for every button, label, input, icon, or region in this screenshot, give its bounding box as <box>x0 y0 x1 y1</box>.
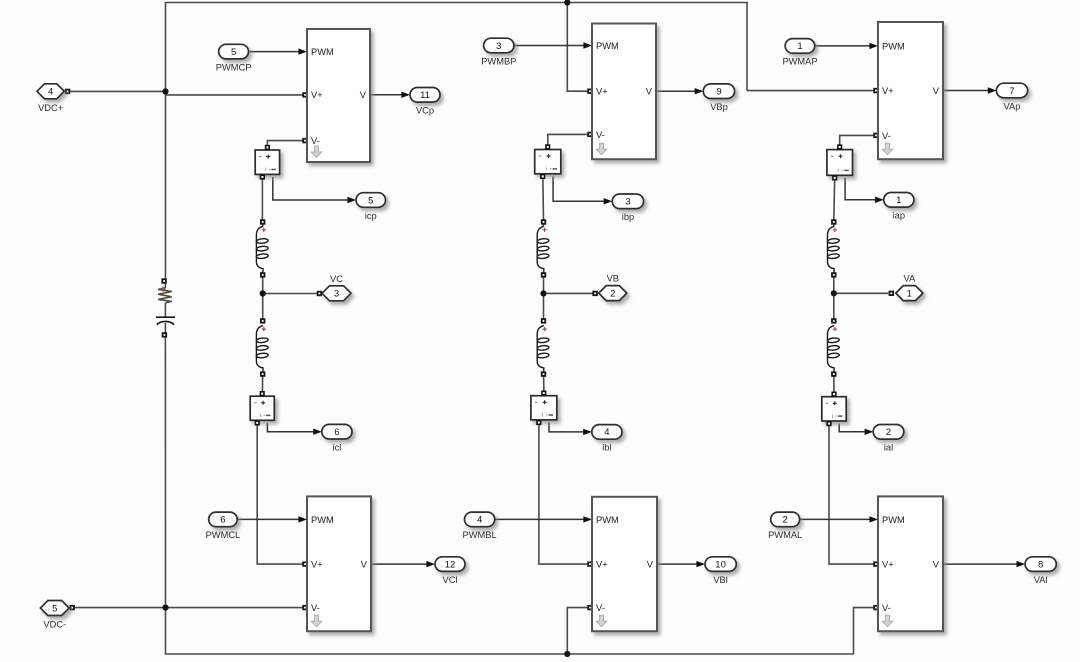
svg-text:V+: V+ <box>596 560 608 570</box>
svg-text:VBp: VBp <box>710 102 728 112</box>
Icp plus mark <box>266 155 270 159</box>
svg-text:3: 3 <box>496 41 501 52</box>
arrowhead into block A lower PWM <box>869 516 878 522</box>
connector block A lower V- pin <box>873 605 878 610</box>
arrowhead into port VAp <box>988 87 997 93</box>
svg-text:V: V <box>647 560 654 570</box>
junction bottom rail / phase B <box>564 651 570 657</box>
resistor red + polarity mark <box>161 287 166 292</box>
svg-text:i: i <box>542 413 543 419</box>
half-bridge block PWM_Bp <box>592 24 656 160</box>
connector LC1 top terminal <box>260 219 265 224</box>
connector LB1 bottom terminal <box>541 272 546 277</box>
wire block B lower V output <box>657 563 701 565</box>
wire PWMBL to block B lower <box>495 518 588 520</box>
junction top rail / phase B <box>564 0 570 6</box>
Ibl plus mark <box>543 400 547 404</box>
svg-text:2: 2 <box>783 515 788 526</box>
port ial (outport 2) <box>873 425 904 440</box>
junction node VA <box>831 290 837 296</box>
svg-text:4: 4 <box>604 427 609 438</box>
Icl plus mark <box>261 401 265 405</box>
wire junction to inductor LC2 <box>262 294 264 319</box>
Iap output glyph <box>844 169 848 171</box>
wire sensor Icp i-output to port icp <box>273 177 349 200</box>
wire block B upper V output <box>656 90 699 92</box>
svg-text:VCp: VCp <box>416 106 434 116</box>
wire sensor Icp to inductor LC1 <box>261 177 263 220</box>
arrowhead into block A upper PWM <box>869 43 878 49</box>
wire sensor Iap i-output to port iap <box>845 178 877 200</box>
svg-text:2: 2 <box>610 288 615 299</box>
LA1 red + polarity mark <box>833 228 837 232</box>
connector block B upper V- pin <box>587 132 592 137</box>
Ibp - pin <box>540 174 545 179</box>
svg-text:V-: V- <box>882 131 891 141</box>
wire block B lower V- to bottom rail <box>567 608 592 654</box>
Ibp plus mark <box>547 154 551 158</box>
arrowhead into block C upper PWM <box>298 48 307 54</box>
Icp output glyph <box>271 169 275 171</box>
svg-text:icp: icp <box>365 211 377 221</box>
connector LB2 bottom terminal <box>541 371 546 376</box>
port PWMCL (inport 6) <box>209 512 238 527</box>
wire sensor Icl i-output to port icl <box>267 423 315 432</box>
Ibl + pin <box>541 391 546 396</box>
svg-text:PWM: PWM <box>882 41 905 51</box>
port VAl (outport 8) <box>1025 557 1056 572</box>
Iap + pin <box>837 144 842 149</box>
inductor LC1 <box>256 226 268 271</box>
svg-text:4: 4 <box>477 515 482 526</box>
Icl output glyph <box>266 414 270 416</box>
port PWMBL (inport 4) <box>465 512 495 527</box>
half-bridge block PWM_Al <box>878 496 943 631</box>
port VBl (outport 10) <box>705 557 736 572</box>
wire block A lower V- to bottom rail <box>854 608 879 654</box>
svg-text:iap: iap <box>893 211 905 221</box>
LB1 red + polarity mark <box>542 228 546 232</box>
inductor LC2 <box>256 326 268 371</box>
wire junction to port VA <box>834 292 889 294</box>
PWM_Al gray arrow icon <box>882 615 893 627</box>
connector VDC+ port <box>65 89 70 94</box>
svg-text:1: 1 <box>896 195 901 206</box>
half-bridge block PWM_Bl <box>592 497 657 631</box>
svg-text:VAp: VAp <box>1004 101 1021 111</box>
port VCp (outport 11) <box>410 88 440 103</box>
wire sensor Ibp to inductor LB1 <box>542 176 545 219</box>
connector LA1 bottom terminal <box>831 272 836 277</box>
svg-text:VBl: VBl <box>713 575 727 585</box>
svg-text:5: 5 <box>52 603 57 614</box>
connector block B upper V+ pin <box>587 89 592 94</box>
svg-text:6: 6 <box>334 427 339 438</box>
wire sensor Ial to block A lower V+ <box>829 424 878 565</box>
connector block C upper V+ pin <box>302 92 307 97</box>
Ibl output glyph <box>549 414 553 416</box>
svg-text:i: i <box>260 413 261 419</box>
connection port VDC- (conn port 5) <box>40 601 69 616</box>
arrowhead into port VCl <box>426 561 435 567</box>
svg-text:VA: VA <box>903 274 916 284</box>
svg-text:V+: V+ <box>882 560 894 570</box>
svg-text:PWMCL: PWMCL <box>206 530 241 540</box>
svg-text:ibl: ibl <box>602 443 611 453</box>
svg-text:V-: V- <box>596 603 605 613</box>
svg-text:V+: V+ <box>882 86 894 96</box>
arrowhead into port iap <box>875 197 884 203</box>
svg-text:VB: VB <box>607 274 619 284</box>
svg-text:PWM: PWM <box>311 47 334 57</box>
svg-text:PWMBP: PWMBP <box>481 56 516 66</box>
arrowhead into port ibl <box>583 429 592 435</box>
svg-text:icl: icl <box>333 443 342 453</box>
port icp (outport 5) <box>356 193 386 208</box>
arrowhead into port ibp <box>604 198 613 204</box>
Ial minus mark <box>826 402 828 404</box>
svg-text:6: 6 <box>220 515 225 526</box>
svg-text:PWM: PWM <box>596 41 619 51</box>
PWM_Cl gray arrow icon <box>311 615 322 627</box>
wire block A lower V output <box>943 563 1021 565</box>
Icp + pin <box>265 145 270 150</box>
svg-text:V+: V+ <box>311 560 323 570</box>
Icl minus mark <box>254 402 256 404</box>
Icl - pin <box>255 420 260 425</box>
wire sensor Ibl i-output to port ibl <box>549 422 585 432</box>
wire block C lower V output <box>371 563 431 565</box>
wire junction to port VC <box>263 293 317 295</box>
LA2 red + polarity mark <box>833 327 837 331</box>
svg-text:V: V <box>361 560 368 570</box>
port PWMCP (inport 5) <box>219 44 249 59</box>
bottom V- rail <box>166 608 854 654</box>
half-bridge block PWM_Cp <box>307 29 370 162</box>
svg-text:12: 12 <box>445 559 456 570</box>
connector capacitor bottom terminal <box>162 332 167 337</box>
arrowhead into block B lower PWM <box>583 516 592 522</box>
connector VDC- port <box>70 605 75 610</box>
wire LC1 top stub <box>262 224 264 226</box>
junction node VC <box>260 290 266 296</box>
svg-text:V+: V+ <box>596 87 608 97</box>
port PWMAL (inport 2) <box>771 512 800 527</box>
svg-text:1: 1 <box>797 41 802 52</box>
connection port VA (conn port 1) <box>896 286 923 301</box>
wire LA1 top stub <box>833 224 835 226</box>
wire LB2 to sensor Ibl <box>543 371 545 393</box>
wire block A upper V output <box>943 90 992 92</box>
connector LB1 top terminal <box>541 219 546 224</box>
svg-text:PWM: PWM <box>882 515 905 525</box>
svg-text:V: V <box>933 560 940 570</box>
junction node VB <box>540 290 546 296</box>
wire LA2 to sensor Ial <box>833 371 835 394</box>
wire top rail to block A upper V+ <box>747 90 878 92</box>
capacitor C (snubber) <box>156 316 175 318</box>
Icp minus mark <box>259 156 261 158</box>
Icp - pin <box>260 174 265 179</box>
port icl (outport 6) <box>322 424 352 439</box>
current sensor Iap <box>827 150 853 176</box>
wire sensor Ibp i-output to port ibp <box>553 176 605 201</box>
current sensor Ibp <box>535 150 561 174</box>
wire connector to resistor <box>164 284 166 289</box>
svg-text:3: 3 <box>625 197 630 208</box>
connector block B lower V+ pin <box>587 561 592 566</box>
wire LB1 top stub <box>543 224 545 226</box>
connector port VC <box>317 291 322 296</box>
arrowhead into port VBp <box>695 88 704 94</box>
arrowhead into port VAl <box>1017 561 1026 567</box>
wire PWMAL to block A lower <box>800 518 874 520</box>
connector LC2 top terminal <box>260 318 265 323</box>
current sensor Ial <box>822 397 846 421</box>
wire VDC+ to junction <box>70 90 166 92</box>
port PWMAP (inport 1) <box>785 39 815 54</box>
svg-text:ial: ial <box>884 443 893 453</box>
wire block C upper V- to sensor Icp <box>267 141 307 150</box>
svg-text:5: 5 <box>368 195 373 206</box>
port VAp (outport 7) <box>996 83 1027 98</box>
svg-text:i: i <box>838 168 839 174</box>
connector LA2 bottom terminal <box>831 371 836 376</box>
Ial + pin <box>831 392 836 397</box>
svg-text:5: 5 <box>231 47 236 58</box>
Ibp + pin <box>545 144 550 149</box>
svg-text:i: i <box>265 167 266 173</box>
Ibp output glyph <box>553 168 557 170</box>
svg-text:V-: V- <box>596 130 605 140</box>
Iap - pin <box>832 175 837 180</box>
svg-text:PWM: PWM <box>596 515 619 525</box>
wire sensor Ibl to block B lower V+ <box>539 422 592 564</box>
half-bridge block PWM_Ap <box>878 22 943 159</box>
resistor R (snubber) <box>158 288 171 303</box>
Ial output glyph <box>838 415 842 417</box>
wire junction to port VB <box>544 292 594 294</box>
svg-text:V+: V+ <box>311 90 323 100</box>
wire sensor Ial i-output to port ial <box>839 424 866 432</box>
wire LC2 to sensor Icl <box>261 371 263 394</box>
port PWMBP (inport 3) <box>484 38 514 53</box>
port ibl (outport 4) <box>592 425 622 440</box>
svg-text:V-: V- <box>311 603 320 613</box>
connector LA2 top terminal <box>831 318 836 323</box>
connector block C upper V- pin <box>302 138 307 143</box>
connector LA1 top terminal <box>831 219 836 224</box>
svg-text:8: 8 <box>1038 559 1043 570</box>
connector block B lower V- pin <box>587 605 592 610</box>
LC2 red + polarity mark <box>262 327 266 331</box>
wire capacitor to connector <box>164 323 166 332</box>
LB2 red + polarity mark <box>542 327 546 331</box>
svg-text:ibp: ibp <box>622 212 634 222</box>
Ibl - pin <box>536 420 541 425</box>
port VCl (outport 12) <box>435 557 465 572</box>
inductor LB2 <box>537 326 549 371</box>
PWM_Bl gray arrow icon <box>596 615 607 627</box>
wire top rail to block B upper V+ <box>567 3 592 92</box>
svg-text:4: 4 <box>48 87 53 98</box>
port iap (outport 1) <box>884 193 914 208</box>
svg-text:3: 3 <box>334 289 339 300</box>
wire junction to inductor LB2 <box>543 293 545 318</box>
inductor LB1 <box>537 226 549 271</box>
wire PWMCL to block C lower <box>237 518 303 520</box>
svg-text:VDC-: VDC- <box>43 620 66 630</box>
connector LB2 top terminal <box>541 318 546 323</box>
svg-text:VAl: VAl <box>1034 575 1048 585</box>
LC1 red + polarity mark <box>262 228 266 232</box>
arrowhead into port ial <box>865 429 874 435</box>
svg-text:PWMCP: PWMCP <box>216 62 252 72</box>
connector block C lower V- pin <box>302 605 307 610</box>
Iap plus mark <box>839 154 843 158</box>
wire left rail upper segment <box>165 91 167 278</box>
svg-text:V-: V- <box>311 136 320 146</box>
wire PWMAP to block A upper <box>815 45 874 47</box>
svg-text:V-: V- <box>882 603 891 613</box>
connector block A upper V+ pin <box>873 88 878 93</box>
wire PWMBP to block B upper <box>514 45 588 47</box>
top V+ distribution rail <box>166 3 748 92</box>
wire block A upper V- to sensor Iap <box>840 135 878 149</box>
connector port VA <box>889 291 894 296</box>
wire junction to inductor LA2 <box>833 293 835 318</box>
svg-text:VDC+: VDC+ <box>38 103 63 113</box>
wire LA1 to node VA junction <box>833 271 835 291</box>
connection port VDC+ (conn port 4) <box>37 84 64 99</box>
Ial plus mark <box>833 401 837 405</box>
arrowhead into port icp <box>347 197 356 203</box>
wire LC1 to node VC junction <box>262 271 264 291</box>
current sensor Icl <box>250 396 274 420</box>
arrowhead into port VBl <box>696 561 705 567</box>
connection port VB (conn port 2) <box>599 286 627 301</box>
inductor LA1 <box>827 226 839 271</box>
wire sensor Iap to inductor LA1 <box>833 178 836 220</box>
svg-text:i: i <box>832 414 833 420</box>
Ibp minus mark <box>539 155 541 157</box>
port ibp (outport 3) <box>612 194 643 209</box>
connector block C lower V+ pin <box>302 561 307 566</box>
arrowhead into block B upper PWM <box>583 42 592 48</box>
wire left rail lower segment <box>164 337 166 607</box>
wire LB1 to node VB junction <box>543 271 545 291</box>
arrowhead into port icl <box>313 429 322 435</box>
connector block A lower V+ pin <box>873 561 878 566</box>
svg-text:1: 1 <box>907 288 912 299</box>
connection port VC (conn port 3) <box>322 286 351 301</box>
connector port VB <box>592 291 597 296</box>
inductor LA2 <box>827 326 839 371</box>
PWM_Ap gray arrow icon <box>882 143 893 155</box>
Ial - pin <box>826 421 831 426</box>
svg-text:V: V <box>933 86 940 96</box>
Iap minus mark <box>831 155 833 157</box>
wire VDC- to block C lower V- <box>75 607 307 609</box>
svg-text:11: 11 <box>420 90 430 101</box>
svg-text:VCl: VCl <box>443 575 458 585</box>
current sensor Icp <box>255 150 279 174</box>
current sensor Ibl <box>531 396 557 420</box>
connector block A upper V- pin <box>873 133 878 138</box>
svg-text:10: 10 <box>715 559 726 570</box>
svg-text:PWMBL: PWMBL <box>463 530 497 540</box>
junction VDC- node <box>162 605 168 611</box>
svg-text:9: 9 <box>716 87 721 98</box>
wire block C upper V output <box>370 94 406 96</box>
connector resistor top terminal <box>161 278 166 283</box>
connector LC2 bottom terminal <box>260 371 265 376</box>
Icl + pin <box>260 391 265 396</box>
port VBp (outport 9) <box>703 84 734 99</box>
svg-text:PWMAP: PWMAP <box>782 57 817 67</box>
svg-text:V: V <box>360 90 367 100</box>
junction VDC+ node <box>162 88 168 94</box>
svg-text:2: 2 <box>886 427 891 438</box>
PWM_Bp gray arrow icon <box>596 143 607 155</box>
half-bridge block PWM_Cl <box>307 496 371 631</box>
wire resistor to capacitor <box>164 303 166 317</box>
wire sensor Icl to block C lower V+ <box>257 423 307 564</box>
Ibl minus mark <box>535 401 537 403</box>
PWM_Cp gray arrow icon <box>311 146 322 158</box>
svg-text:i: i <box>546 167 547 173</box>
svg-text:VC: VC <box>330 274 343 284</box>
svg-text:V: V <box>646 87 653 97</box>
wire block B upper V- to sensor Ibp <box>548 134 592 149</box>
arrowhead into block C lower PWM <box>298 516 307 522</box>
svg-text:7: 7 <box>1009 86 1014 97</box>
svg-text:PWMAL: PWMAL <box>768 530 802 540</box>
connector LC1 bottom terminal <box>260 272 265 277</box>
wire PWMCP to block C upper <box>249 51 304 53</box>
svg-text:PWM: PWM <box>311 515 334 525</box>
wire junction to block C upper V+ <box>166 91 308 95</box>
arrowhead into port VCp <box>401 92 410 98</box>
